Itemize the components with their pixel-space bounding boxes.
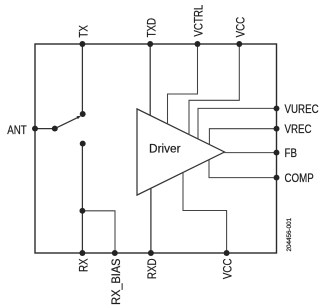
svg-text:RX: RX: [77, 258, 90, 272]
svg-text:Driver: Driver: [149, 141, 181, 155]
svg-text:VCC: VCC: [235, 17, 248, 38]
node RX pin dot: [79, 250, 85, 256]
node switch TX contact dot: [80, 111, 86, 117]
node VREC pin dot: [274, 126, 280, 132]
wire RXD vertical: [150, 188, 152, 253]
wire ANT to switch pole: [35, 128, 55, 130]
node VCTRL pin dot: [195, 41, 201, 47]
wire VCC bottom stepped: [183, 172, 227, 253]
svg-text:ANT: ANT: [7, 124, 27, 137]
wire VREC stepped: [209, 129, 276, 145]
node RX_BIAS pin dot: [112, 250, 118, 256]
svg-text:VCTRL: VCTRL: [193, 5, 206, 37]
node ANT pin dot: [32, 126, 38, 132]
node switch RX contact dot: [80, 141, 86, 147]
svg-text:204456-001: 204456-001: [286, 217, 293, 251]
svg-text:TXD: TXD: [145, 18, 158, 38]
node COMP pin dot: [274, 175, 280, 181]
svg-text:VREC: VREC: [285, 123, 312, 136]
wire TX vertical: [81, 44, 83, 114]
wire COMP stepped: [209, 160, 277, 178]
wire VCC top stepped: [189, 44, 239, 135]
svg-text:FB: FB: [285, 147, 297, 160]
svg-text:TX: TX: [78, 25, 91, 38]
wire FB horizontal: [225, 152, 277, 154]
node VCC bottom pin dot: [224, 250, 230, 256]
node switch pole dot: [52, 126, 58, 132]
node RXD pin dot: [148, 250, 154, 256]
svg-text:RX_BIAS: RX_BIAS: [109, 258, 123, 305]
node FB pin dot: [274, 150, 280, 156]
node RX/RX_BIAS junction dot: [79, 208, 85, 214]
svg-text:COMP: COMP: [285, 172, 314, 185]
svg-text:VUREC: VUREC: [285, 103, 319, 116]
svg-text:RXD: RXD: [146, 258, 159, 279]
wire TXD vertical: [149, 44, 151, 116]
node VCC top pin dot: [236, 41, 242, 47]
node TXD pin dot: [147, 41, 153, 47]
wire RX_BIAS branch: [82, 211, 115, 253]
op-amp U1 driver triangle: [137, 109, 225, 195]
wire VCTRL stepped: [168, 44, 198, 124]
wire VUREC stepped: [198, 108, 277, 139]
node TX pin dot: [79, 41, 85, 47]
svg-text:VCC: VCC: [222, 258, 235, 279]
switch S1 blade with arrowhead: [55, 117, 78, 128]
chip outline box U1: [35, 44, 277, 253]
node VUREC pin dot: [274, 105, 280, 111]
wire RX vertical: [81, 144, 83, 253]
